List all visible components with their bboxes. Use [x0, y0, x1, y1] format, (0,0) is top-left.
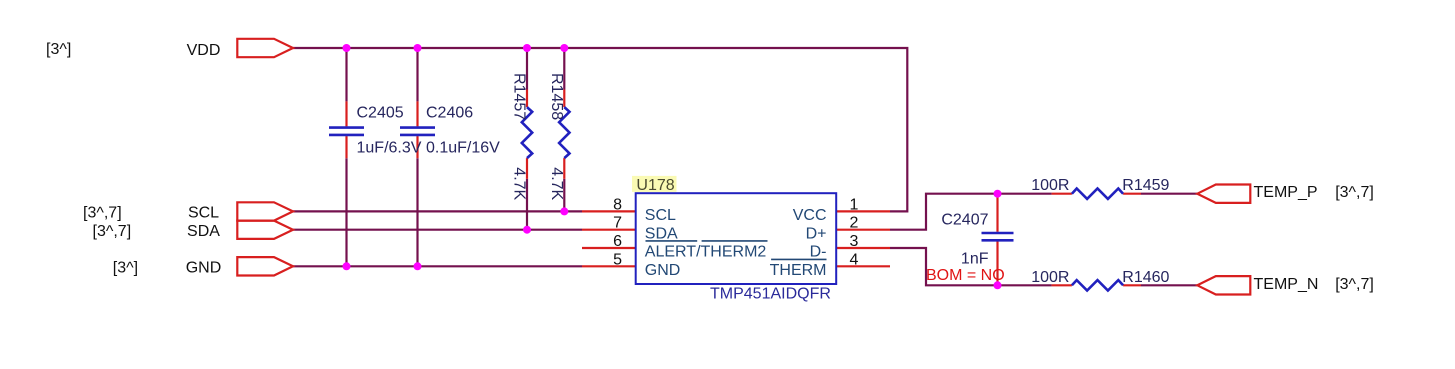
wire VDD rail	[293, 48, 907, 211]
wire R1458 lower	[563, 179, 565, 212]
svg-text:R1457: R1457	[510, 73, 527, 120]
port GND	[237, 257, 293, 275]
port TEMP_N	[1197, 276, 1250, 294]
svg-text:[3^,7]: [3^,7]	[83, 205, 122, 222]
wire R1457 lower	[526, 179, 528, 230]
svg-text:C2405: C2405	[357, 105, 404, 122]
node junction VDD-R1458	[560, 44, 568, 52]
port TEMP_P	[1197, 185, 1250, 203]
svg-text:TEMP_P: TEMP_P	[1254, 184, 1318, 201]
node junction VDD-C2406	[414, 44, 422, 52]
svg-text:1nF: 1nF	[961, 250, 989, 267]
svg-text:4.7K: 4.7K	[510, 167, 527, 200]
pin U178.5 GND	[582, 265, 636, 267]
svg-text:[3^,7]: [3^,7]	[1335, 184, 1374, 201]
svg-text:TMP451AIDQFR: TMP451AIDQFR	[710, 285, 831, 302]
pin U178.6 ALERT	[582, 247, 636, 249]
svg-text:8: 8	[613, 196, 622, 213]
label ALERT overbar	[646, 240, 698, 242]
svg-text:ALERT/THERM2: ALERT/THERM2	[645, 244, 767, 261]
wire GND net	[293, 265, 582, 267]
pin R1460 left	[1052, 284, 1072, 286]
pin R1459 right	[1123, 193, 1141, 195]
port SCL	[237, 202, 293, 220]
svg-text:0.1uF/16V: 0.1uF/16V	[426, 140, 500, 157]
svg-text:THERM: THERM	[770, 262, 827, 279]
svg-text:TEMP_N: TEMP_N	[1254, 276, 1319, 293]
svg-text:C2407: C2407	[941, 212, 988, 229]
pin R1457 bottom	[526, 158, 528, 179]
node junction GND-C2405	[343, 262, 351, 270]
svg-text:7: 7	[613, 215, 622, 232]
resistor R1460	[1072, 280, 1123, 290]
port SDA	[237, 221, 293, 239]
node junction GND-C2406	[414, 262, 422, 270]
resistor R1457	[522, 107, 532, 158]
node junction VDD-R1457	[523, 44, 531, 52]
wire SCL net	[293, 210, 582, 212]
svg-text:R1459: R1459	[1122, 177, 1169, 194]
svg-text:[3^]: [3^]	[46, 41, 71, 58]
svg-text:U178: U178	[636, 177, 674, 194]
svg-text:R1458: R1458	[548, 73, 565, 120]
pin C2407 top	[996, 194, 998, 232]
wire C2406 lower	[416, 158, 418, 266]
svg-text:4.7K: 4.7K	[548, 167, 565, 200]
capacitor C2406	[400, 128, 435, 135]
svg-text:[3^,7]: [3^,7]	[1335, 276, 1374, 293]
node junction VDD-C2405	[343, 44, 351, 52]
pin U178.8 SCL	[582, 210, 636, 212]
pin R1457 top	[526, 90, 528, 108]
pin R1458 top	[563, 90, 565, 108]
svg-text:100R: 100R	[1031, 177, 1069, 194]
svg-text:[3^,7]: [3^,7]	[93, 223, 132, 240]
svg-text:D+: D+	[806, 225, 827, 242]
svg-text:GND: GND	[186, 259, 222, 276]
resistor R1459	[1072, 189, 1123, 199]
capacitor C2405	[329, 128, 364, 135]
svg-text:R1460: R1460	[1122, 269, 1169, 286]
wire D- net	[890, 248, 1052, 285]
svg-text:5: 5	[613, 251, 622, 268]
pin C2407 bottom	[996, 242, 998, 286]
pin U178.7 SDA	[582, 229, 636, 231]
svg-text:SCL: SCL	[188, 205, 219, 222]
pin R1459 left	[1052, 193, 1072, 195]
svg-text:C2406: C2406	[426, 105, 473, 122]
svg-text:D-: D-	[810, 244, 827, 261]
node junction SDA-R1457	[523, 226, 531, 234]
label THERM overbar	[771, 258, 826, 260]
svg-text:2: 2	[850, 215, 859, 232]
pin R1460 right	[1123, 284, 1141, 286]
wire SDA net	[293, 229, 582, 231]
node junction TEMP_N-C2407	[994, 281, 1002, 289]
pin C2406 bottom	[416, 136, 418, 158]
pin U178.4 THERM	[836, 265, 890, 267]
pin U178.1 VCC	[836, 210, 890, 212]
label THERM2 overbar	[702, 240, 768, 242]
wire C2405 upper	[345, 48, 347, 101]
wire R1458 upper	[563, 48, 565, 90]
svg-text:100R: 100R	[1031, 269, 1069, 286]
wire TEMP_N net	[1141, 284, 1197, 286]
label U178 highlight	[632, 176, 677, 192]
capacitor C2407	[982, 233, 1014, 240]
pin C2406 top	[416, 101, 418, 126]
svg-text:SCL: SCL	[645, 207, 676, 224]
svg-text:VDD: VDD	[187, 42, 221, 59]
wire D+ net	[890, 194, 1052, 230]
svg-text:VCC: VCC	[793, 207, 827, 224]
wire TEMP_P net	[1141, 193, 1197, 195]
wire R1457 upper	[526, 48, 528, 90]
svg-text:6: 6	[613, 233, 622, 250]
port VDD	[237, 39, 293, 57]
resistor R1458	[559, 107, 569, 158]
node junction SCL-R1458	[560, 207, 568, 215]
wire C2406 upper	[416, 48, 418, 101]
svg-text:SDA: SDA	[187, 223, 220, 240]
svg-text:1uF/6.3V: 1uF/6.3V	[357, 140, 422, 157]
op-amp U178 body	[636, 193, 837, 284]
pin R1458 bottom	[563, 158, 565, 179]
svg-text:4: 4	[850, 251, 859, 268]
pin U178.2 D+	[836, 229, 890, 231]
svg-text:[3^]: [3^]	[113, 259, 138, 276]
node junction TEMP_P-C2407	[994, 190, 1002, 198]
pin U178.3 D-	[836, 247, 890, 249]
svg-text:GND: GND	[645, 262, 681, 279]
pin C2405 bottom	[345, 136, 347, 158]
pin C2405 top	[345, 101, 347, 126]
svg-text:BOM = NO: BOM = NO	[926, 267, 1005, 284]
svg-text:3: 3	[850, 233, 859, 250]
svg-text:1: 1	[850, 196, 859, 213]
wire C2405 lower	[345, 158, 347, 266]
svg-text:SDA: SDA	[645, 225, 678, 242]
